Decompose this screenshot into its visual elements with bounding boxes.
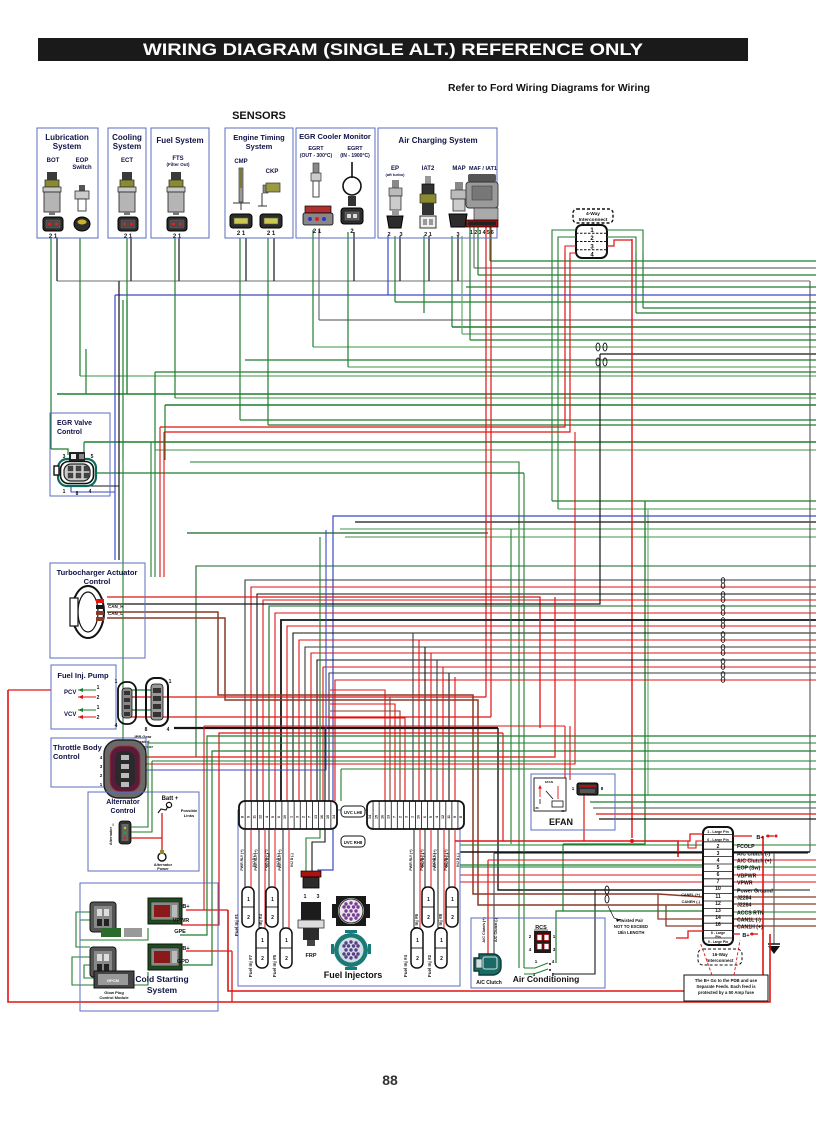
wire GPD [183, 751, 816, 965]
svg-text:1: 1 [440, 938, 443, 944]
red B+ loop top [678, 834, 703, 841]
svg-text:1: 1 [411, 816, 415, 818]
svg-text:8: 8 [240, 816, 244, 818]
svg-text:3: 3 [456, 232, 459, 238]
svg-text:1: 1 [97, 705, 100, 711]
connector FTS [167, 217, 187, 231]
wire EFAN red drop [583, 795, 585, 841]
svg-text:Fuel Injectors: Fuel Injectors [324, 970, 383, 980]
wire EP blue [387, 236, 389, 295]
connector EP [387, 216, 403, 228]
svg-text:15: 15 [326, 815, 330, 819]
wire fusible link [158, 806, 168, 813]
svg-text:FCOLP: FCOLP [737, 844, 755, 850]
svg-text:2 1: 2 1 [267, 231, 276, 237]
wire CMP+ [239, 238, 241, 420]
svg-text:10: 10 [417, 815, 421, 819]
wire: RCS black [552, 890, 595, 974]
relay glow plug left [148, 898, 182, 924]
svg-text:Lubrication: Lubrication [45, 133, 89, 142]
svg-text:Throttle Body: Throttle Body [53, 743, 103, 752]
wire VPWR [181, 733, 503, 925]
wire: power ground thick [174, 727, 498, 729]
box Air Conditioning [471, 918, 605, 988]
svg-text:16: 16 [380, 815, 384, 819]
connector glow plugs right bank [90, 947, 116, 977]
svg-text:PCV: PCV [64, 690, 76, 696]
svg-text:1: 1 [285, 938, 288, 944]
svg-text:2 1: 2 1 [424, 232, 432, 238]
red B+ loop bottom [676, 931, 703, 938]
connector Fuel Inj #3 [266, 887, 278, 927]
sensor BOT [43, 172, 61, 215]
svg-text:EOP (Sw): EOP (Sw) [737, 866, 761, 872]
svg-text:9: 9 [453, 816, 457, 818]
svg-text:7: 7 [308, 816, 312, 818]
svg-text:16: 16 [715, 922, 721, 928]
svg-text:Fuel Inj. Pump: Fuel Inj. Pump [57, 671, 109, 680]
wire: blue EP signal [115, 294, 816, 296]
svg-text:5: 5 [271, 816, 275, 818]
svg-text:16-Way: 16-Way [712, 952, 728, 957]
svg-text:15: 15 [374, 815, 378, 819]
wire: AC clutch+ red [487, 860, 489, 962]
svg-text:13: 13 [715, 908, 721, 914]
sensor EOP switch [75, 185, 89, 211]
svg-text:(Filter Out): (Filter Out) [167, 162, 190, 167]
svg-text:Fuel System: Fuel System [156, 136, 203, 145]
relay glow plug right [148, 944, 182, 970]
sensor MAP [451, 182, 467, 211]
svg-text:EGR Valve: EGR Valve [57, 420, 92, 427]
connector Fuel Inj #6 [422, 887, 434, 927]
svg-text:4-Way: 4-Way [586, 211, 600, 217]
wire EGR black jog [78, 483, 119, 486]
twisted pair marks on injector bundle [721, 578, 725, 583]
connector FRP [301, 871, 321, 900]
label 16-Way Interconnect [698, 949, 742, 965]
wire: sensor ground bus [57, 280, 810, 282]
svg-text:12: 12 [715, 901, 721, 907]
relay RCS [529, 925, 556, 953]
svg-text:ECT: ECT [121, 158, 133, 164]
wire: AC clutch- gray [493, 853, 495, 962]
svg-text:A/C Clutch: A/C Clutch [476, 980, 502, 986]
svg-text:B+: B+ [742, 933, 749, 939]
svg-text:Control: Control [84, 577, 111, 586]
svg-text:3: 3 [399, 232, 402, 238]
svg-text:6: 6 [717, 872, 720, 878]
svg-text:GPE: GPE [174, 929, 186, 935]
svg-text:UVC LH8: UVC LH8 [344, 810, 363, 815]
connector UVC RH8 [367, 801, 464, 829]
svg-text:13: 13 [314, 815, 318, 819]
injector pigtails LH [244, 829, 246, 887]
wire: turbo black [107, 354, 600, 604]
ground symbol [768, 943, 780, 945]
wire alt green 1 [148, 742, 816, 744]
connector round black [332, 896, 370, 926]
svg-text:(aft turbo): (aft turbo) [386, 172, 406, 177]
connector ECT [118, 217, 138, 231]
nested green corners left of EGR [85, 349, 87, 394]
wire EGR blue jog [71, 483, 115, 492]
svg-text:EOP: EOP [76, 158, 89, 164]
wire B+ lower [186, 950, 232, 952]
connector EGRT in [341, 208, 363, 224]
box Fuel Inj. Pump [51, 665, 116, 729]
svg-text:2 1: 2 1 [124, 234, 133, 240]
svg-text:2 1: 2 1 [237, 231, 246, 237]
svg-text:4: 4 [265, 816, 269, 818]
svg-text:Refer to Ford Wiring Diagrams: Refer to Ford Wiring Diagrams for Wiring [448, 82, 650, 94]
svg-text:BOT: BOT [47, 158, 60, 164]
wire CAN_H brown [107, 612, 658, 894]
svg-text:Cold Starting: Cold Starting [135, 974, 188, 984]
svg-text:3: 3 [317, 894, 320, 900]
wire right edge ground [809, 281, 811, 852]
svg-text:1: 1 [304, 894, 307, 900]
svg-text:11: 11 [253, 815, 257, 819]
svg-text:protected by a 50 Amp fuse: protected by a 50 Amp fuse [698, 990, 755, 995]
svg-text:EGRT: EGRT [308, 146, 324, 152]
svg-text:7: 7 [392, 816, 396, 818]
wire CKP+ [267, 238, 269, 425]
svg-text:Air Conditioning: Air Conditioning [513, 974, 580, 984]
wire EGRT out [312, 230, 314, 347]
connector 4-Way Interconnect [573, 209, 613, 223]
svg-text:Alternator: Alternator [109, 826, 113, 845]
wire EGR pin5 [83, 442, 85, 457]
svg-text:9 - Large Pin: 9 - Large Pin [708, 940, 728, 944]
wire alt green 2 [152, 760, 816, 762]
svg-text:3: 3 [405, 816, 409, 818]
connector round teal [331, 930, 371, 970]
svg-text:86: 86 [535, 806, 539, 810]
svg-text:CAN1L (-): CAN1L (-) [737, 918, 761, 924]
wire MAP [451, 236, 453, 327]
svg-text:2: 2 [717, 844, 720, 850]
16way left feed wires [460, 844, 703, 846]
wire 4way pin3 right [607, 240, 632, 246]
svg-text:SENSORS: SENSORS [232, 110, 286, 122]
svg-text:MAP: MAP [452, 166, 465, 172]
svg-text:4: 4 [89, 489, 92, 495]
svg-text:CANEL (+): CANEL (+) [681, 893, 701, 897]
svg-text:1: 1 [247, 897, 250, 903]
wire: ground bus right [460, 851, 810, 853]
svg-text:13: 13 [386, 815, 390, 819]
connector EOP [74, 217, 90, 231]
connector Fuel Inj #7 [256, 928, 268, 968]
wire BOT signal [50, 238, 52, 449]
sensor EGRT in [343, 162, 361, 206]
16way right stubs [733, 844, 816, 846]
sensor MAF/IAT1 [466, 174, 498, 220]
svg-text:I: I [112, 822, 113, 827]
title bar [38, 38, 748, 61]
svg-text:A/C Clutch (+): A/C Clutch (+) [737, 859, 772, 865]
svg-text:2: 2 [271, 915, 274, 921]
sensor IAT2 [420, 176, 436, 215]
svg-text:2 1: 2 1 [313, 229, 322, 235]
connector MAP [449, 214, 467, 227]
wire bundle top horizontals [490, 260, 816, 262]
wire green to AC switch [523, 473, 525, 968]
connector IPR left [115, 679, 136, 729]
box EGR Valve Control [50, 413, 110, 496]
svg-text:5: 5 [429, 816, 433, 818]
connector EGR valve [54, 452, 96, 497]
svg-text:4: 4 [167, 727, 170, 733]
svg-text:Separate Feeds. Each feed is: Separate Feeds. Each feed is [696, 984, 756, 989]
svg-text:18in LENGTH: 18in LENGTH [618, 930, 645, 935]
wire ECT signal [126, 238, 128, 394]
svg-text:8: 8 [145, 727, 148, 733]
svg-text:88: 88 [382, 1072, 398, 1088]
wire 4way pin2 right [607, 237, 636, 252]
svg-text:11: 11 [715, 894, 721, 900]
svg-text:Twisted Pair: Twisted Pair [619, 918, 644, 923]
wire alt red [131, 837, 162, 839]
connector MAF [466, 220, 498, 227]
svg-text:5: 5 [91, 454, 94, 460]
box Cold Starting System [80, 883, 218, 1011]
wire BOT ground [56, 238, 58, 281]
svg-text:System: System [53, 142, 81, 151]
wire ground drop [773, 853, 775, 944]
svg-text:CAN1H (+): CAN1H (+) [737, 925, 763, 931]
svg-text:Pin: Pin [715, 935, 720, 939]
svg-text:Control: Control [53, 752, 80, 761]
svg-text:MAF / IAT1: MAF / IAT1 [469, 166, 497, 172]
sensor FTS [167, 172, 185, 215]
svg-text:1 2 3 4 5 6: 1 2 3 4 5 6 [470, 230, 494, 236]
wire IAT2 [423, 236, 425, 313]
wire MAF red to IPR [485, 227, 487, 697]
svg-text:Fuel Inj #5: Fuel Inj #5 [272, 955, 277, 978]
wire: B+ red bus to 16way [455, 841, 678, 857]
note box B+ [684, 975, 768, 1001]
box Alternator Control [88, 792, 199, 871]
svg-text:System: System [113, 142, 141, 151]
svg-text:3: 3 [295, 816, 299, 818]
box EFAN [531, 774, 615, 830]
svg-text:6 - Large Pin: 6 - Large Pin [707, 838, 729, 842]
svg-text:1: 1 [289, 816, 293, 818]
connector turbo actuator [70, 586, 124, 638]
svg-text:6: 6 [423, 816, 427, 818]
connector BOT [43, 217, 63, 231]
wire blue drop [114, 295, 116, 560]
connector Fuel Inj #8 [446, 887, 458, 927]
svg-text:Interconnect: Interconnect [579, 217, 608, 223]
EFAN feed wires [587, 794, 816, 796]
box EGR Cooler Monitor [296, 128, 375, 238]
label UVC LH8 [341, 806, 365, 817]
box Air Charging System [378, 128, 497, 238]
svg-text:1: 1 [416, 938, 419, 944]
svg-text:EGR Cooler Monitor: EGR Cooler Monitor [299, 132, 371, 141]
svg-text:2: 2 [440, 956, 443, 962]
wire red left edge up [8, 689, 51, 691]
svg-text:4: 4 [435, 816, 439, 818]
svg-text:VPWR: VPWR [173, 918, 190, 924]
svg-text:1: 1 [115, 679, 118, 685]
red verticals near EFAN [510, 529, 512, 844]
wire GPE [180, 736, 816, 935]
green bend into EGR area [51, 449, 68, 455]
svg-text:Control Module: Control Module [99, 995, 129, 1000]
svg-text:85: 85 [561, 809, 565, 813]
svg-text:A/C Clutch (-): A/C Clutch (-) [494, 917, 498, 942]
wire: red pair from 4-way [160, 252, 565, 427]
connector UVC LH8 [239, 801, 337, 829]
injector driver bundle RH [412, 633, 414, 801]
svg-text:PWR RLY (+): PWR RLY (+) [254, 849, 258, 870]
sensor FRP [298, 902, 324, 946]
svg-text:A/C Clutch (-): A/C Clutch (-) [737, 852, 770, 858]
svg-text:14: 14 [368, 815, 372, 819]
svg-text:1: 1 [427, 897, 430, 903]
svg-text:B+: B+ [182, 904, 189, 910]
svg-text:12: 12 [441, 815, 445, 819]
svg-text:CKP: CKP [266, 169, 279, 175]
svg-text:1: 1 [169, 679, 172, 685]
svg-text:PWR RLY (+): PWR RLY (+) [433, 849, 437, 870]
svg-text:CAN_H: CAN_H [108, 604, 124, 609]
svg-text:2: 2 [427, 915, 430, 921]
callout dashes [700, 942, 712, 975]
svg-text:GPD: GPD [177, 959, 189, 965]
svg-text:INJ D (-): INJ D (-) [290, 853, 294, 866]
svg-text:INJ D (-): INJ D (-) [456, 853, 460, 866]
svg-text:INJ D (-): INJ D (-) [266, 853, 270, 866]
svg-text:1: 1 [97, 685, 100, 691]
svg-text:FRP: FRP [306, 953, 317, 959]
green loops cold start [76, 912, 90, 947]
svg-text:2: 2 [247, 915, 250, 921]
svg-text:INJ D (-): INJ D (-) [445, 853, 449, 866]
wire alt green up1 [131, 743, 148, 827]
wire 4way pin1 right [607, 230, 643, 252]
svg-text:Fuel Inj #4: Fuel Inj #4 [403, 955, 408, 978]
wire green AC coil [190, 462, 519, 968]
svg-text:Alternator: Alternator [106, 799, 140, 806]
svg-text:2: 2 [285, 956, 288, 962]
wire FRP black [312, 728, 325, 886]
svg-text:CAN_L: CAN_L [108, 611, 123, 616]
svg-text:16: 16 [320, 815, 324, 819]
wire: blue FRP signal [318, 516, 816, 886]
svg-text:(IN - 1900°C): (IN - 1900°C) [340, 153, 370, 159]
svg-text:Interconnect: Interconnect [706, 958, 734, 963]
sensor EGRT out [311, 163, 321, 197]
svg-text:1: 1 [271, 897, 274, 903]
svg-text:Air Charging System: Air Charging System [398, 136, 477, 145]
svg-text:Fuel Inj #7: Fuel Inj #7 [248, 955, 253, 978]
wire: RCS green [556, 911, 703, 963]
connector IPR right [145, 678, 172, 733]
svg-text:EFAN: EFAN [549, 817, 573, 827]
svg-text:GPCM: GPCM [107, 978, 120, 983]
svg-text:2: 2 [302, 816, 306, 818]
svg-text:Power: Power [157, 867, 169, 871]
svg-text:2: 2 [97, 695, 100, 701]
svg-text:IAT2: IAT2 [422, 166, 435, 172]
svg-text:2 1: 2 1 [173, 234, 182, 240]
svg-text:INJ D (-): INJ D (-) [421, 853, 425, 866]
svg-text:9: 9 [246, 816, 250, 818]
svg-text:Links: Links [184, 813, 195, 818]
wires MAF/IAT1 drops [469, 227, 471, 340]
svg-text:Cooling: Cooling [112, 133, 142, 142]
svg-text:2: 2 [97, 715, 100, 721]
twisted pair marks CAN [596, 343, 600, 351]
box Throttle Body Control [51, 738, 146, 787]
wire FRP green [306, 537, 320, 886]
svg-text:5: 5 [717, 865, 720, 871]
connector Fuel Inj #2 [435, 928, 447, 968]
wire B+ upper [186, 909, 228, 911]
svg-text:12: 12 [259, 815, 263, 819]
svg-text:Fuel Inj #2: Fuel Inj #2 [427, 955, 432, 978]
connector 16-Way Interconnect [703, 827, 733, 945]
svg-text:2: 2 [261, 956, 264, 962]
svg-text:14: 14 [715, 915, 721, 921]
box Fuel System [151, 128, 209, 238]
svg-text:3: 3 [717, 851, 720, 857]
wire 4way pin4 left [570, 253, 576, 258]
wire 4way pin3 left [565, 246, 576, 252]
svg-text:2: 2 [416, 956, 419, 962]
svg-text:CANEH (-): CANEH (-) [682, 900, 701, 904]
wire: turbo red [107, 597, 540, 728]
svg-text:WIRING DIAGRAM (SINGLE ALT.) R: WIRING DIAGRAM (SINGLE ALT.) REFERENCE O… [143, 40, 644, 59]
svg-text:4: 4 [717, 858, 720, 864]
svg-text:11: 11 [447, 815, 451, 819]
connector EGRT out [303, 206, 333, 225]
connector Fuel Inj #1 [242, 887, 254, 927]
svg-text:System: System [147, 985, 178, 995]
svg-text:ACCS RTN: ACCS RTN [737, 911, 764, 917]
box Cooling System [108, 128, 146, 238]
wire: long red from 4-way pin3 [631, 239, 633, 838]
svg-text:Switch: Switch [72, 165, 92, 171]
svg-text:2: 2 [399, 816, 403, 818]
svg-text:The B+ Go to the PDB and us: The B+ Go to the PDB and use [695, 978, 758, 983]
svg-text:Batt +: Batt + [162, 796, 179, 802]
svg-text:8: 8 [76, 491, 79, 497]
box Engine Timing System [225, 128, 293, 238]
svg-text:14: 14 [332, 815, 336, 819]
red/brown nest above RH8 [330, 690, 385, 801]
svg-text:Fuel Inj #1: Fuel Inj #1 [234, 914, 239, 937]
wire alternator power [161, 813, 163, 853]
throttle body wires [143, 597, 555, 757]
bottom red bus [228, 836, 763, 991]
svg-text:Turbocharger Actuator: Turbocharger Actuator [57, 568, 138, 577]
brown jogs to CAN1 rows [658, 894, 703, 919]
sensor CMP [233, 168, 250, 210]
box Turbocharger Actuator Control [50, 563, 145, 658]
svg-text:10: 10 [283, 815, 287, 819]
svg-text:EGRT: EGRT [347, 146, 363, 152]
box Lubrication System [37, 128, 98, 238]
connector IAT2 [420, 216, 436, 228]
connector CKP [260, 214, 282, 228]
svg-text:2: 2 [387, 232, 390, 238]
